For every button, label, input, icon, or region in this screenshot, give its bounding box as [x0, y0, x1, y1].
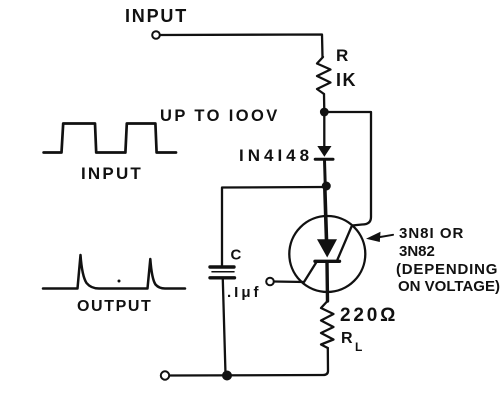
- svg-text:L: L: [355, 340, 362, 354]
- svg-text:3N82: 3N82: [399, 243, 435, 260]
- svg-text:ON VOLTAGE): ON VOLTAGE): [398, 278, 500, 295]
- svg-text:UP TO IOOV: UP TO IOOV: [160, 107, 280, 125]
- svg-text:INPUT: INPUT: [125, 6, 188, 26]
- svg-text:.Iμf: .Iμf: [227, 284, 262, 301]
- svg-text:R: R: [341, 330, 353, 347]
- svg-text:C: C: [231, 247, 242, 264]
- svg-text:3N8I OR: 3N8I OR: [399, 225, 464, 242]
- svg-text:(DEPENDING: (DEPENDING: [396, 261, 498, 278]
- svg-text:R: R: [336, 46, 348, 65]
- svg-text:IK: IK: [336, 70, 357, 90]
- svg-text:IN4I48: IN4I48: [239, 146, 313, 165]
- svg-text:220Ω: 220Ω: [340, 305, 398, 326]
- svg-text:OUTPUT: OUTPUT: [77, 298, 152, 315]
- svg-text:INPUT: INPUT: [81, 164, 143, 183]
